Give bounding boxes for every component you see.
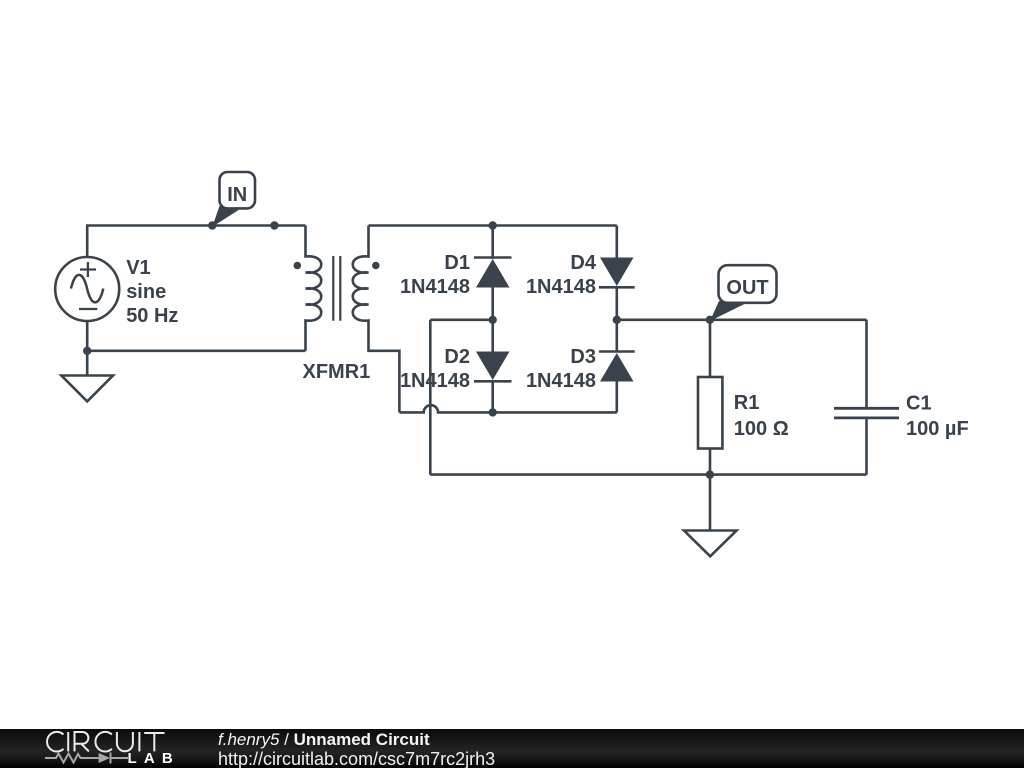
svg-text:C1: C1 — [906, 393, 932, 415]
svg-text:IN: IN — [227, 184, 247, 206]
svg-text:D1: D1 — [444, 252, 470, 274]
svg-text:1N4148: 1N4148 — [526, 370, 596, 392]
svg-text:V1: V1 — [126, 257, 150, 279]
svg-text:100 µF: 100 µF — [906, 418, 969, 440]
svg-text:D4: D4 — [570, 252, 596, 274]
svg-text:1N4148: 1N4148 — [400, 276, 470, 298]
svg-text:R1: R1 — [734, 392, 760, 414]
svg-text:50 Hz: 50 Hz — [126, 305, 178, 327]
svg-text:100 Ω: 100 Ω — [734, 418, 789, 440]
svg-text:D2: D2 — [444, 346, 470, 368]
svg-text:D3: D3 — [570, 346, 596, 368]
svg-text:1N4148: 1N4148 — [400, 370, 470, 392]
svg-text:1N4148: 1N4148 — [526, 276, 596, 298]
svg-text:OUT: OUT — [726, 277, 768, 299]
svg-text:sine: sine — [126, 281, 166, 303]
svg-text:XFMR1: XFMR1 — [303, 361, 371, 383]
